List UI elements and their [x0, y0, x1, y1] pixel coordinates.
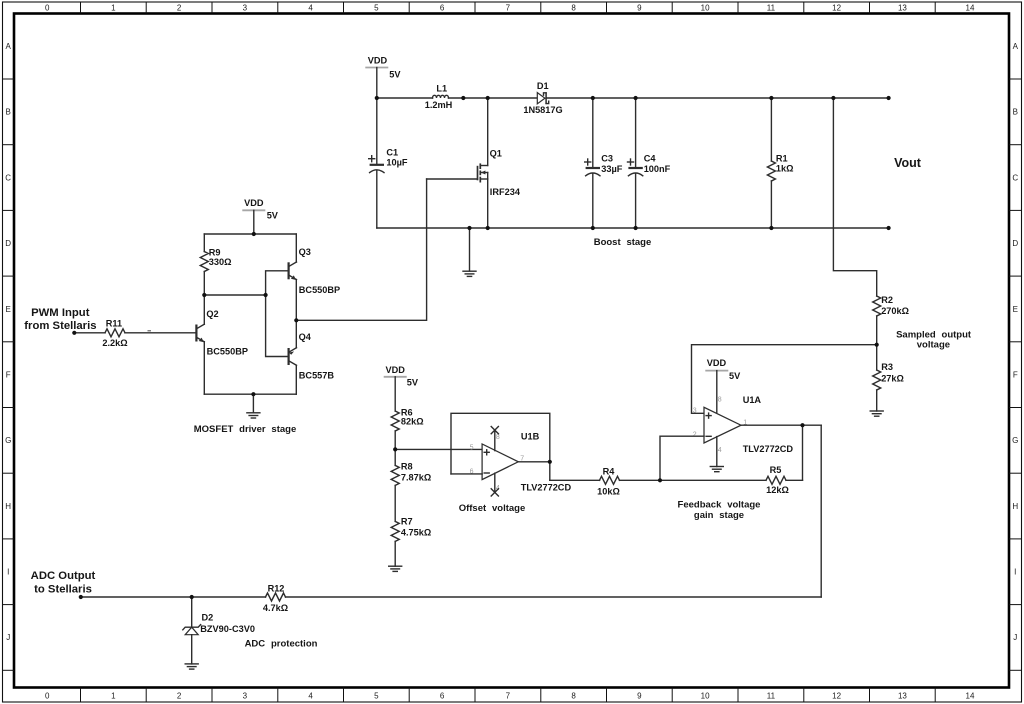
svg-text:12: 12 [832, 4, 841, 13]
no-connect pin 8 U1B [491, 427, 498, 451]
svg-text:L1: L1 [436, 84, 447, 94]
svg-text:Q1: Q1 [490, 149, 502, 159]
svg-text:R5: R5 [770, 465, 782, 475]
svg-text:11: 11 [767, 691, 776, 700]
node R4/R5/-in [658, 478, 662, 482]
node U1A out [800, 423, 804, 427]
svg-text:R11: R11 [106, 319, 122, 329]
node PWM terminal [72, 331, 76, 335]
svg-text:14: 14 [966, 4, 975, 13]
svg-text:R7: R7 [401, 516, 413, 526]
svg-text:9: 9 [637, 691, 642, 700]
svg-text:C3: C3 [601, 153, 613, 163]
svg-text:TLV2772CD: TLV2772CD [521, 482, 572, 492]
wire U1B output [518, 461, 550, 463]
svg-text:F: F [1013, 370, 1018, 379]
svg-text:F: F [6, 370, 11, 379]
svg-text:4: 4 [308, 4, 313, 13]
svg-text:100nF: 100nF [644, 164, 671, 174]
resistor R11 2.2kohm [74, 319, 196, 349]
svg-text:PWM Input: PWM Input [31, 307, 90, 319]
svg-text:5: 5 [374, 691, 379, 700]
svg-text:Q2: Q2 [206, 309, 218, 319]
svg-text:5V: 5V [267, 210, 279, 220]
svg-text:8: 8 [571, 4, 576, 13]
svg-text:R4: R4 [603, 466, 616, 476]
resistor R8 7.87kohm [391, 449, 431, 521]
resistor R7 4.75kohm [391, 516, 431, 566]
capacitor C1 10uF [369, 98, 408, 228]
svg-text:E: E [6, 305, 11, 314]
svg-text:1N5817G: 1N5817G [523, 105, 562, 115]
wire U1B out to R4 [550, 479, 600, 481]
svg-text:5V: 5V [407, 378, 419, 388]
node VDD/C1/L1 [375, 96, 379, 100]
resistor R3 27kohm [873, 345, 904, 411]
svg-text:E: E [1013, 305, 1018, 314]
resistor R12 4.7kohm [263, 583, 288, 612]
svg-text:5V: 5V [729, 371, 741, 381]
svg-text:VDD: VDD [707, 358, 727, 368]
resistor R6 82kohm [391, 407, 423, 449]
svg-text:H: H [5, 502, 11, 511]
svg-text:33µF: 33µF [601, 164, 623, 174]
wire U1A -in branch [660, 436, 704, 480]
svg-text:6: 6 [440, 691, 445, 700]
svg-text:Q4: Q4 [299, 332, 312, 342]
ground (driver stage) [247, 394, 260, 418]
svg-text:10: 10 [701, 4, 710, 13]
svg-text:Boost stage: Boost stage [594, 237, 652, 248]
svg-text:8: 8 [571, 691, 576, 700]
wire U1B feedback loop [451, 413, 550, 480]
svg-text:5: 5 [374, 4, 379, 13]
svg-text:11: 11 [767, 4, 776, 13]
svg-text:0: 0 [45, 691, 50, 700]
svg-text:BC550BP: BC550BP [207, 346, 248, 356]
node Vout- terminal [887, 226, 891, 230]
wire L1 to D1 anode [449, 97, 538, 99]
svg-text:A: A [1013, 42, 1019, 51]
wire R4 node to R5 [660, 479, 766, 481]
svg-text:U1B: U1B [521, 431, 540, 441]
svg-text:10kΩ: 10kΩ [597, 487, 620, 497]
svg-text:D1: D1 [537, 81, 549, 91]
svg-text:7: 7 [506, 691, 511, 700]
wire D1 cathode to Vout terminal [546, 97, 889, 99]
ground (offset divider) [389, 566, 402, 571]
resistor R5 12kohm [766, 465, 803, 495]
node L1 out [461, 96, 465, 100]
svg-text:Vout: Vout [894, 156, 922, 170]
svg-text:Feedback voltage: Feedback voltage [678, 499, 761, 510]
node R9/Q2 collector [202, 293, 206, 297]
svg-text:2: 2 [177, 691, 182, 700]
VDD power symbol (offset) [384, 365, 419, 411]
node C4 bottom [634, 226, 638, 230]
capacitor C3 33uF [585, 98, 623, 228]
svg-text:G: G [5, 436, 11, 445]
ground (ADC protection) [185, 664, 198, 669]
svg-text:14: 14 [966, 691, 975, 700]
transistor Q3 BC550BP [289, 234, 341, 320]
svg-text:C: C [1012, 173, 1018, 182]
svg-text:13: 13 [898, 691, 907, 700]
svg-text:I: I [7, 568, 9, 577]
svg-text:VDD: VDD [244, 198, 264, 208]
svg-text:R2: R2 [881, 295, 893, 305]
svg-text:2.2kΩ: 2.2kΩ [102, 338, 127, 348]
svg-text:B: B [6, 108, 11, 117]
resistor R2 270kohm [873, 295, 909, 345]
svg-text:C4: C4 [644, 153, 657, 163]
svg-text:4.75kΩ: 4.75kΩ [401, 528, 431, 538]
node driver VDD [252, 232, 256, 236]
diode D1 1N5817G (schottky) [523, 81, 562, 115]
svg-text:BC550BP: BC550BP [299, 285, 340, 295]
node ADC terminal [79, 595, 83, 599]
wire base bus [266, 271, 289, 357]
svg-text:4.7kΩ: 4.7kΩ [263, 603, 288, 613]
node divider tap [393, 447, 397, 451]
svg-text:3: 3 [243, 4, 248, 13]
VDD power symbol (driver) [242, 198, 279, 234]
inductor L1 1.2mH [425, 84, 453, 111]
diode D2 BZV90-C3V0 (zener) [183, 597, 255, 664]
node D2 top [190, 595, 194, 599]
svg-text:D2: D2 [202, 612, 214, 622]
svg-text:BC557B: BC557B [299, 370, 335, 380]
svg-text:U1A: U1A [743, 395, 762, 405]
svg-text:9: 9 [637, 4, 642, 13]
svg-text:A: A [6, 42, 12, 51]
svg-text:4: 4 [718, 447, 722, 454]
svg-text:7: 7 [506, 4, 511, 13]
wire U1A output [741, 424, 821, 426]
node sampled tap [875, 343, 879, 347]
svg-text:7.87kΩ: 7.87kΩ [401, 473, 431, 483]
resistor R1 1kohm [767, 98, 793, 228]
node base bus [264, 293, 268, 297]
svg-text:2: 2 [693, 432, 697, 439]
svg-text:D: D [1012, 239, 1018, 248]
svg-text:27kΩ: 27kΩ [881, 373, 904, 383]
svg-text:C1: C1 [386, 148, 398, 158]
svg-text:8: 8 [718, 397, 722, 404]
svg-text:Offset voltage: Offset voltage [459, 503, 526, 514]
svg-text:gain stage: gain stage [694, 510, 744, 521]
node R1 bottom [769, 226, 773, 230]
svg-text:270kΩ: 270kΩ [881, 306, 909, 316]
node C3 top [591, 96, 595, 100]
svg-text:VDD: VDD [368, 55, 388, 65]
node U1B out [548, 460, 552, 464]
svg-text:4: 4 [308, 691, 313, 700]
wire divider tap to U1A +in [692, 345, 877, 414]
svg-text:from Stellaris: from Stellaris [24, 320, 96, 332]
svg-text:13: 13 [898, 4, 907, 13]
resistor R9 330ohm [200, 234, 231, 295]
svg-text:1: 1 [111, 691, 116, 700]
svg-text:10: 10 [701, 691, 710, 700]
node PWM input terminal [24, 307, 96, 332]
wire R5 up to U1A output [802, 425, 804, 480]
transistor Q2 BC550BP [196, 295, 248, 394]
svg-text:82kΩ: 82kΩ [401, 417, 424, 427]
svg-text:1.2mH: 1.2mH [425, 100, 453, 110]
svg-text:voltage: voltage [917, 340, 950, 351]
ground (boost stage) [463, 228, 476, 276]
op-amp U1A TLV2772CD [693, 395, 794, 454]
node Q1 source [486, 226, 490, 230]
wire U1A output down to ADC net [820, 425, 822, 597]
svg-text:R1: R1 [776, 153, 788, 163]
capacitor C4 100nF [628, 98, 671, 228]
wire top rail VDD to L1 [377, 97, 433, 99]
node C3 bottom [591, 226, 595, 230]
svg-text:12kΩ: 12kΩ [766, 485, 789, 495]
svg-text:G: G [1012, 436, 1018, 445]
caption sampled output voltage [896, 330, 972, 351]
node driver out [294, 318, 298, 322]
node R1 top [769, 96, 773, 100]
VDD power symbol (boost input) [365, 55, 401, 98]
wire driver VDD rail [204, 233, 296, 235]
svg-text:R3: R3 [881, 362, 893, 372]
svg-text:R8: R8 [401, 461, 413, 471]
svg-text:J: J [6, 633, 10, 642]
svg-text:10µF: 10µF [386, 157, 408, 167]
svg-text:D: D [5, 239, 11, 248]
svg-text:TLV2772CD: TLV2772CD [743, 444, 794, 454]
node gnd tap [467, 226, 471, 230]
svg-text:R12: R12 [268, 583, 285, 593]
op-amp U1B TLV2772CD [470, 431, 572, 492]
svg-text:5V: 5V [389, 70, 401, 80]
svg-text:3: 3 [693, 408, 697, 415]
node driver gnd [251, 392, 255, 396]
wire ADC output net [81, 596, 821, 598]
transistor Q4 BC557B [289, 320, 335, 394]
no-connect pin 4 U1B [491, 473, 498, 496]
svg-text:J: J [1013, 633, 1017, 642]
wire Vout feed down to R2 [833, 98, 876, 296]
ground (U1A pin 4) [710, 437, 723, 472]
svg-text:Q3: Q3 [299, 247, 311, 257]
node Vout+ terminal [887, 96, 891, 100]
svg-text:B: B [1013, 108, 1018, 117]
svg-text:R9: R9 [209, 248, 221, 258]
svg-text:5: 5 [470, 444, 474, 451]
wire driver emitter rail [204, 393, 296, 395]
svg-text:1: 1 [111, 4, 116, 13]
resistor R4 10kohm [597, 466, 660, 496]
svg-text:330Ω: 330Ω [209, 257, 232, 267]
node Q1 drain [486, 96, 490, 100]
svg-text:BZV90-C3V0: BZV90-C3V0 [200, 624, 255, 634]
svg-text:ADC protection: ADC protection [245, 638, 318, 649]
node ADC output terminal [31, 570, 96, 596]
svg-text:I: I [1014, 568, 1016, 577]
svg-text:0: 0 [45, 4, 50, 13]
wire R9 to base bus [204, 294, 265, 296]
wire divider to U1B +in [395, 448, 482, 450]
wire driver output to Q1 gate [296, 179, 426, 320]
transistor Q1 IRF234 (NMOS) [427, 98, 521, 228]
svg-text:1kΩ: 1kΩ [776, 164, 794, 174]
svg-text:6: 6 [440, 4, 445, 13]
svg-text:MOSFET driver stage: MOSFET driver stage [194, 424, 296, 435]
node C4 top [634, 96, 638, 100]
VDD power symbol (U1A) [705, 358, 741, 414]
svg-text:3: 3 [243, 691, 248, 700]
svg-text:to Stellaris: to Stellaris [34, 584, 92, 596]
svg-text:2: 2 [177, 4, 182, 13]
ground (sampling divider) [870, 411, 883, 416]
svg-text:VDD: VDD [385, 365, 405, 375]
node R2 feed [831, 96, 835, 100]
wire boost bottom ground rail [377, 227, 889, 229]
svg-text:ADC Output: ADC Output [31, 570, 96, 582]
svg-text:C: C [5, 173, 11, 182]
svg-text:IRF234: IRF234 [490, 187, 521, 197]
svg-text:H: H [1012, 502, 1018, 511]
svg-text:8: 8 [496, 434, 500, 441]
caption feedback voltage gain stage [678, 499, 761, 521]
svg-text:12: 12 [832, 691, 841, 700]
